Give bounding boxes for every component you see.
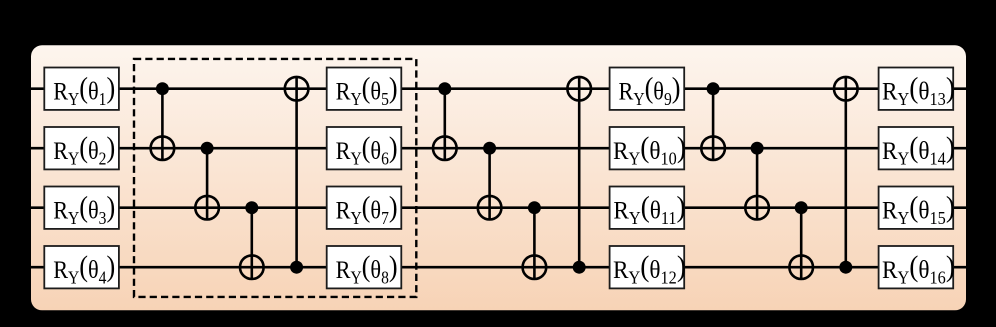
svg-text:RY(θ4): RY(θ4) bbox=[53, 251, 115, 288]
svg-text:RY(θ9): RY(θ9) bbox=[618, 72, 680, 109]
svg-text:RY(θ5): RY(θ5) bbox=[336, 72, 398, 109]
svg-text:RY(θ1): RY(θ1) bbox=[53, 72, 115, 109]
svg-text:RY(θ2): RY(θ2) bbox=[53, 132, 115, 169]
svg-text:RY(θ7): RY(θ7) bbox=[336, 191, 398, 228]
svg-text:RY(θ6): RY(θ6) bbox=[336, 132, 398, 169]
svg-text:RY(θ3): RY(θ3) bbox=[53, 191, 115, 228]
svg-text:RY(θ8): RY(θ8) bbox=[336, 251, 398, 288]
